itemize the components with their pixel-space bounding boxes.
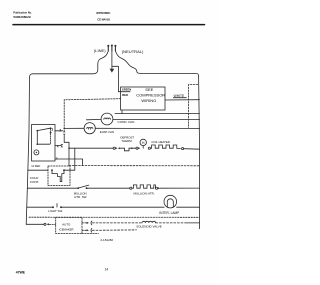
wire mullion to bus [160, 187, 200, 189]
wire: icemaker feed from bus corner [26, 223, 44, 225]
wire: mullion row from bus [27, 187, 78, 189]
power plug prongs [107, 44, 116, 50]
timer terminal 4 label [57, 145, 59, 149]
wire: right bus (neutral) [199, 77, 200, 229]
timer switch blade [37, 128, 50, 130]
wire: timer motor return [55, 159, 83, 166]
defrost timer box [32, 125, 55, 162]
timer contact lower [36, 143, 38, 145]
wire: red dashed from compressor box left [64, 99, 120, 131]
wire: cond fan to right bus [113, 118, 200, 120]
page number [105, 268, 109, 272]
label RED [122, 93, 128, 97]
svg-text:2: 2 [59, 128, 61, 132]
svg-text:COMPRESSOR: COMPRESSOR [136, 92, 165, 97]
label EVAP. FAN [100, 130, 114, 134]
wire: heater row feed junction [69, 147, 113, 149]
wire to heater [132, 147, 136, 149]
timer terminal 1 label [51, 128, 53, 132]
label MULLION HTR. SW. [74, 192, 88, 199]
wire: cold control to heater row riser [64, 148, 75, 170]
timer terminal 3 label [56, 157, 58, 161]
svg-text:INTER. LAMP: INTER. LAMP [159, 211, 179, 215]
svg-text:MULLION HTR.: MULLION HTR. [134, 191, 155, 195]
wire: evap fan to red node [64, 127, 84, 129]
wire: evap fan to right bus [95, 127, 199, 129]
terminal circle [136, 147, 138, 149]
ground pin arrow [111, 66, 113, 68]
dashed wire from lower connector [92, 229, 136, 231]
timer terminal 2 stub [55, 130, 63, 132]
timer motor [34, 150, 39, 155]
dashed boundary segment [82, 232, 99, 234]
title: publication number [13, 11, 32, 20]
label DEFROST THERM. [120, 136, 134, 143]
cond fan coil symbol [104, 118, 111, 119]
label LIGHT SW. [48, 209, 63, 213]
svg-text:HTR. SW.: HTR. SW. [74, 195, 87, 199]
svg-text:14 RED: 14 RED [31, 164, 40, 168]
heater end terminal [182, 148, 184, 150]
label SEE COMPRESSOR WIRING [136, 87, 165, 103]
icemaker right connector lower [82, 229, 87, 231]
wire: neutral side from plug to right bus [115, 51, 198, 77]
timer cam dashed line [50, 129, 52, 144]
svg-text:Publication No.: Publication No. [13, 11, 32, 15]
label INTER. LAMP [159, 211, 179, 215]
timer terminal 2 label [59, 128, 61, 132]
cold control contact left [51, 169, 53, 171]
wire: white neutral from compressor box to right bus [165, 99, 200, 101]
svg-text:THERM.: THERM. [121, 139, 132, 143]
svg-text:CE MAY93: CE MAY93 [97, 18, 110, 22]
timer terminal 4 stub with connector [55, 144, 61, 146]
dashed compartment boundary [189, 85, 198, 128]
drawing number [100, 238, 113, 242]
defrost thermostat [120, 147, 125, 149]
compressor box [121, 87, 165, 110]
terminal circle [148, 147, 150, 149]
svg-text:SOLENOID VALVE: SOLENOID VALVE [136, 224, 162, 228]
interior lamp [164, 195, 177, 208]
svg-text:WIRING: WIRING [141, 98, 156, 103]
label SOLENOID VALVE [136, 224, 162, 228]
condenser fan motor [101, 113, 113, 125]
svg-text:47WE: 47WE [16, 271, 26, 275]
wire light switch to lamp [61, 206, 164, 208]
cold control contact right [63, 169, 65, 171]
svg-text:COND. FAN: COND. FAN [118, 120, 135, 124]
mullion heater element [132, 185, 156, 188]
wire: line bus to cold control [28, 169, 48, 171]
icemaker right connector upper [82, 222, 87, 224]
footer code [16, 271, 26, 275]
header rule [13, 24, 205, 26]
mullion switch [77, 187, 79, 189]
cold control bellows switch [52, 170, 64, 181]
svg-text:5995208029: 5995208029 [13, 15, 30, 19]
svg-text:RED: RED [122, 93, 128, 97]
wire: line side from plug to left bus [30, 51, 109, 78]
mullion heater terminal [130, 187, 132, 189]
wire mullion switch to heater [87, 187, 130, 189]
defrost heater element [150, 145, 180, 148]
svg-text:ICEMAKER: ICEMAKER [59, 228, 74, 232]
svg-text:WRT22RRC: WRT22RRC [96, 11, 110, 15]
label GREEN [122, 88, 131, 92]
wire: compressor box bottom stub [122, 110, 200, 114]
wire lamp to bus [177, 206, 200, 208]
junction dot heater feed [68, 147, 70, 149]
svg-text:14: 14 [105, 268, 109, 272]
timer contact 2 [50, 127, 52, 129]
label 14 RED [31, 164, 40, 168]
svg-text:SEE: SEE [145, 87, 153, 92]
wire: light row from bus [27, 206, 53, 208]
evaporator fan motor [84, 123, 95, 134]
svg-text:(LINE): (LINE) [94, 48, 106, 53]
label COIL HEATER [151, 140, 169, 144]
svg-text:2-181282: 2-181282 [100, 238, 113, 242]
solenoid coil [142, 221, 156, 223]
title: model number [96, 11, 110, 22]
timer internal wire [37, 131, 50, 145]
cold control box dashed [48, 166, 70, 186]
timer contact common [36, 130, 38, 132]
icemaker feed connector [44, 223, 46, 225]
svg-text:1: 1 [51, 128, 53, 132]
underline WHITE [173, 97, 186, 99]
wire: cond fan left stub [86, 118, 101, 120]
mullion heater end connector [156, 187, 158, 189]
label MULLION HTR. [134, 191, 155, 195]
svg-text:CONT.: CONT. [30, 180, 39, 184]
wire: red continues to junction [64, 135, 69, 165]
dashed wire solenoid to bus [156, 222, 187, 224]
thermal cutout H [140, 139, 146, 145]
label WHITE [174, 94, 185, 98]
svg-text:H: H [142, 141, 145, 145]
svg-text:GREEN: GREEN [122, 88, 131, 92]
icemaker box dashed [56, 217, 82, 233]
dashed wire to solenoid [92, 222, 141, 224]
wire heater to bus [184, 148, 200, 151]
connector on heater row [113, 147, 115, 149]
svg-text:EVAP. FAN: EVAP. FAN [100, 130, 114, 134]
label AUTO ICEMAKER [59, 222, 74, 231]
connector arrows on red wire [63, 131, 66, 136]
label COND. FAN [118, 120, 135, 124]
terminal line under GREEN [121, 91, 130, 93]
evap fan coil symbol [87, 127, 93, 130]
svg-text:COIL HEATER: COIL HEATER [151, 140, 169, 144]
ground pin wire [112, 51, 122, 92]
timer contact 4 [50, 132, 52, 134]
wire: dashed neutral return row [69, 165, 199, 167]
svg-text:LIGHT SW.: LIGHT SW. [48, 209, 63, 213]
junction: evap tap [63, 128, 65, 130]
svg-text:AUTO: AUTO [62, 222, 71, 226]
lamp filament [167, 199, 173, 207]
light switch [52, 206, 54, 208]
dashed wire into icemaker [49, 223, 56, 225]
dashed accessory line [29, 216, 200, 218]
wire: left bus (line) [26, 77, 29, 224]
svg-text:(NEUTRAL): (NEUTRAL) [122, 49, 144, 54]
label COLD CONT. [30, 176, 39, 184]
